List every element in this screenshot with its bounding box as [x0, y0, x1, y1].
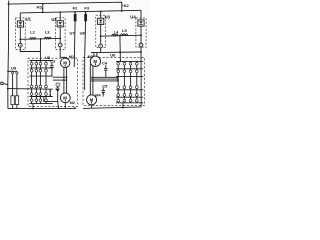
- svg-text:C3: C3: [50, 58, 56, 63]
- contact branch 2: [16, 71, 18, 96]
- wire U4 feeder: [140, 10, 142, 20]
- rectifier U3 dashed enclosure: [96, 15, 106, 47]
- contact column right 1: [117, 61, 119, 102]
- svg-text:U2: U2: [51, 17, 57, 22]
- node junction bus/top: [8, 3, 10, 5]
- node junction drop grid left: [40, 60, 42, 62]
- inductor L3: [44, 37, 51, 39]
- wire grid right bottom drop: [122, 103, 124, 107]
- wire U1 output: [20, 47, 40, 60]
- node junction rail U2: [59, 11, 61, 13]
- wire bottom left rail: [8, 107, 76, 109]
- svg-text:M: M: [93, 59, 97, 64]
- resistor R branch 1: [11, 96, 14, 105]
- rectifier U4 dashed enclosure: [136, 18, 146, 47]
- terminal ground circle: [1, 82, 4, 85]
- node junction bottom right: [122, 107, 124, 109]
- diode U3 square: [98, 18, 104, 24]
- svg-text:U4: U4: [130, 14, 136, 19]
- svg-text:M1: M1: [69, 55, 74, 59]
- wire M1 top stubs: [63, 57, 65, 58]
- node junction rail K2: [121, 10, 123, 12]
- node junction K0 top: [42, 3, 44, 5]
- motor M2: [60, 93, 70, 103]
- motor M4: [87, 95, 97, 105]
- node junction U3 wire3: [100, 35, 102, 37]
- node junction rail U3: [100, 11, 102, 13]
- node junction U4 dc: [140, 51, 142, 53]
- inductor L2: [30, 38, 37, 40]
- diode U4 square: [138, 20, 144, 26]
- wire left bus vertical: [7, 1, 10, 109]
- wire U2 feeder: [59, 12, 61, 20]
- wire field tap left b: [53, 79, 67, 81]
- resistor grid left rails: [30, 60, 53, 62]
- resistor grid right rails: [116, 60, 143, 62]
- motor M1: [60, 58, 69, 67]
- rectifier U1 dashed enclosure: [15, 18, 25, 50]
- node junctions field taps: [117, 77, 119, 79]
- wire U2 mid: [59, 27, 61, 43]
- wire bottom left end tick: [74, 107, 76, 108]
- contact circles left grid: [30, 62, 47, 101]
- svg-text:F2: F2: [73, 6, 78, 11]
- svg-text:F3: F3: [84, 6, 89, 11]
- wire staircase left block: [44, 97, 59, 109]
- wire U4 mid: [140, 26, 142, 43]
- inductor L4: [112, 34, 118, 36]
- svg-text:L2: L2: [30, 29, 35, 34]
- svg-text:C4: C4: [102, 61, 108, 66]
- svg-text:M4: M4: [95, 94, 101, 98]
- capacitor C2 small box: [56, 83, 60, 86]
- node junction bus rail: [7, 88, 9, 90]
- svg-text:U8: U8: [80, 31, 86, 36]
- wire smoothing rail right: [101, 35, 141, 36]
- node junction bottom 2: [58, 108, 60, 110]
- node junction wire1 tap: [19, 38, 21, 40]
- contact K0: [42, 4, 44, 13]
- svg-text:C5: C5: [102, 83, 108, 88]
- transformer U1 sensor circle: [18, 43, 22, 47]
- transformer U2 sensor circle: [58, 43, 62, 47]
- node junction bus branch: [7, 70, 9, 72]
- wire bottom right rail: [83, 107, 141, 109]
- wire mid tap drop left: [39, 39, 41, 52]
- contact circles right grid: [117, 62, 138, 101]
- node junction bottom 1: [32, 108, 34, 110]
- motor M3: [90, 56, 100, 66]
- svg-text:M: M: [63, 95, 67, 100]
- fuse F2: [74, 12, 76, 14]
- svg-text:M3: M3: [88, 55, 93, 59]
- wire U2 output to M1: [60, 47, 66, 57]
- contact column right 4: [136, 61, 138, 102]
- node junction L5 U4: [140, 34, 142, 36]
- contact branch 1: [12, 71, 14, 96]
- wire grid col50 link: [49, 89, 51, 96]
- node junction rail F2: [74, 11, 76, 13]
- svg-text:U1: U1: [26, 16, 32, 21]
- inductor L5: [121, 34, 128, 36]
- node junction mid tap left: [40, 38, 42, 40]
- wire U7 branch: [73, 21, 76, 67]
- transformer U4 sensor circle: [139, 43, 143, 47]
- node junction rail F3: [85, 11, 87, 13]
- diode U1 square: [17, 21, 23, 27]
- wire mid tap drop right: [119, 36, 122, 62]
- enclosure right motor group dashed: [83, 58, 145, 106]
- svg-text:L5: L5: [122, 28, 127, 33]
- node junction U2 wire1: [59, 38, 61, 40]
- wire M4 bottom: [91, 105, 93, 108]
- node junction grid right c: [49, 90, 51, 92]
- node junction drop grid right: [120, 61, 122, 63]
- node junction tap a: [66, 76, 68, 78]
- node junction drop dc right: [119, 51, 121, 53]
- wire M3 M4 links: [89, 64, 91, 95]
- svg-text:K2: K2: [124, 3, 130, 8]
- resistor branch U9 header: [8, 70, 17, 72]
- wire U4 down to bottom: [140, 47, 142, 107]
- svg-text:U9: U9: [11, 66, 17, 71]
- contact column left 3: [39, 61, 41, 104]
- wire dc rail right: [91, 51, 141, 54]
- resistor R branch 2: [15, 96, 18, 105]
- wire U3 output: [100, 48, 102, 53]
- fuse F3: [85, 12, 87, 14]
- svg-text:M: M: [90, 97, 94, 102]
- wire second rail: [20, 10, 141, 13]
- transformer U3 sensor circle: [99, 44, 103, 48]
- contact column left 4: [45, 61, 47, 104]
- wire terminal lead: [3, 83, 8, 86]
- node junction rail K0: [42, 12, 44, 14]
- node junction mid tap right: [119, 35, 121, 37]
- wire M2 bottom: [64, 103, 66, 109]
- svg-text:M: M: [63, 60, 67, 65]
- wire M1 M2 links: [63, 67, 65, 93]
- wire U3 mid: [100, 24, 102, 44]
- contact column right 3: [130, 61, 132, 102]
- wire smoothing rail left: [20, 37, 60, 40]
- contact column left 2: [35, 61, 37, 104]
- wire U8 branch: [85, 21, 86, 90]
- svg-text:M2: M2: [70, 101, 75, 105]
- contact column right 2: [123, 61, 125, 102]
- svg-text:U7: U7: [70, 31, 76, 36]
- node junction tap b: [63, 79, 65, 81]
- wire field tap left a: [53, 76, 67, 78]
- wire top supply: [9, 2, 122, 11]
- wire field taps right: [91, 76, 118, 78]
- svg-text:U3: U3: [105, 14, 111, 19]
- rectifier U2 dashed enclosure: [55, 18, 65, 50]
- wire M3 top stubs: [93, 52, 95, 56]
- contact K2 tick: [122, 5, 123, 7]
- svg-text:U6: U6: [110, 53, 116, 58]
- enclosure left motor group dashed: [28, 58, 78, 106]
- svg-text:L4: L4: [114, 29, 119, 34]
- wire grid left bottom drop: [32, 104, 34, 109]
- wire U1 feeder: [19, 13, 21, 21]
- contact column left 1: [31, 61, 33, 104]
- wire U3 feeder: [100, 12, 102, 19]
- svg-text:K0: K0: [37, 5, 43, 10]
- svg-text:L3: L3: [45, 29, 50, 34]
- diode U2 square: [57, 21, 63, 27]
